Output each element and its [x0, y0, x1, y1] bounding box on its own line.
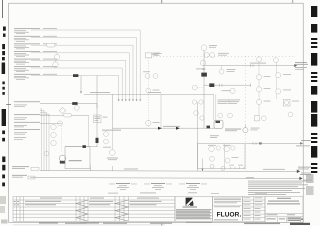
- main line: [204, 65, 294, 67]
- tag bubble A: [218, 113, 223, 118]
- bubble at main elbow: [200, 60, 206, 66]
- signal box tag: [154, 53, 162, 55]
- approval column text: [244, 198, 263, 220]
- upper branch valve: [209, 83, 214, 87]
- scan edge marks right: [311, 6, 317, 173]
- scan edge marks left: [2, 27, 6, 187]
- signal bubble 3: [146, 88, 151, 93]
- chain278 tags: [283, 74, 299, 101]
- page number bottom right: [290, 223, 310, 225]
- main riser block valve: [201, 73, 207, 77]
- feed D3 dashed drop: [60, 123, 62, 153]
- bubble on main line: [221, 66, 223, 69]
- main riser flange ticks: [203, 69, 206, 70]
- stream 7 line: [31, 76, 119, 100]
- utility line: [245, 142, 300, 144]
- signal bubble 4 tag: [153, 121, 160, 124]
- vent tags: [251, 128, 260, 131]
- line A stub 2: [111, 166, 113, 171]
- feed riser elbows: [40, 109, 49, 116]
- dotted line pair tags: [218, 53, 229, 56]
- svg-text:FLUOR.: FLUOR.: [217, 212, 242, 219]
- stream 7 arrowhead: [118, 99, 120, 101]
- cabinet bubble pair 1: [209, 146, 215, 152]
- utility fitting ticks: [253, 142, 256, 145]
- upper branch line: [204, 84, 251, 86]
- feed D2 drop: [88, 115, 90, 146]
- drum: [214, 120, 223, 128]
- header text 2: [148, 91, 161, 94]
- wordmark single line: [214, 205, 240, 208]
- riser ext text: [107, 157, 118, 160]
- cabinet ticks tags: [229, 164, 243, 167]
- cabinet bottom bubble 2: [221, 166, 225, 170]
- chain278 bubble 3: [276, 89, 281, 94]
- fluor block bottom text: [186, 222, 212, 223]
- title bottom cells: [265, 214, 303, 223]
- feed D2 label: [14, 114, 40, 119]
- drum label: [225, 129, 241, 132]
- drum inline valve: [207, 126, 211, 129]
- chain bubble 1: [256, 75, 261, 80]
- cleaning unit box: [65, 147, 90, 169]
- cabinet bottom bubble 1: [210, 164, 214, 168]
- tag bubble B: [228, 113, 233, 118]
- continuation stamp 1: [109, 183, 137, 190]
- vent bubble on battery limit: [244, 125, 246, 128]
- bundle bubble 2: [51, 132, 56, 137]
- header drop 1: [111, 94, 113, 128]
- signal bubble tags: [143, 71, 150, 74]
- scan edge line top-left: [2, 0, 4, 18]
- cabinet bubble pair 2: [224, 146, 230, 152]
- bottom strip text: [65, 223, 280, 224]
- riser extension below junction: [111, 128, 113, 149]
- chain259 top bubble: [257, 57, 262, 62]
- secondary bubble: [230, 88, 235, 93]
- line A source label: [12, 166, 29, 169]
- cabinet drop line: [197, 102, 199, 171]
- stream 4 arrowhead: [128, 99, 130, 101]
- chain bubble 3: [256, 99, 261, 104]
- tag bubble B text: [228, 100, 240, 104]
- stream 7 check valve: [73, 74, 78, 77]
- equipment tag box: [94, 115, 102, 123]
- revision row 1 text: [14, 201, 162, 202]
- stream 2 label: [14, 36, 57, 42]
- signal bubble 4: [146, 120, 151, 125]
- stream 6 arrowhead: [121, 99, 123, 101]
- flow arrow bottom line 2: [176, 127, 180, 130]
- header line: [84, 93, 214, 95]
- continuation stamp 3: [179, 183, 207, 190]
- stream 1 arrowhead: [139, 99, 141, 101]
- feed D3 tag bubble: [58, 121, 63, 126]
- continuation stamp 2: [144, 183, 172, 190]
- title cell text: [267, 218, 304, 221]
- upper branch end tick: [250, 84, 252, 87]
- revision zigzag right: [115, 200, 129, 221]
- fold tick left middle: [6, 103, 11, 105]
- riser top bubble: [201, 45, 207, 51]
- fold tick top center: [161, 0, 163, 3]
- riser side bubbles: [104, 132, 109, 137]
- signal bubble pair: [145, 74, 150, 79]
- cabinet bubble 4 text: [232, 156, 239, 159]
- revision header text: [40, 197, 159, 200]
- stream 6 line: [31, 68, 122, 100]
- feed D3 line: [40, 122, 61, 124]
- stream 3 inline tag oval: [47, 43, 56, 47]
- upper branch ticks: [220, 84, 223, 87]
- stream 10 check valve: [72, 102, 77, 105]
- riser x97: [96, 104, 98, 147]
- wordmark divider: [213, 204, 243, 206]
- line B: [30, 177, 299, 180]
- line B destination label: [300, 174, 312, 180]
- line B end arrow: [299, 177, 302, 180]
- revision row 2 text: [14, 204, 157, 205]
- border inner bottom line: [13, 224, 165, 226]
- scan smudge bottom-left: [0, 196, 8, 224]
- cleaning unit label: [69, 160, 82, 161]
- stream 4 label: [14, 51, 57, 57]
- stream 5 label: [14, 59, 57, 65]
- feed D2 line: [40, 114, 89, 116]
- line B tag box: [28, 176, 35, 179]
- skid bottom line: [112, 127, 215, 129]
- title mid row text: [267, 213, 296, 216]
- line A stub 1: [89, 165, 91, 171]
- bubble on main tags: [227, 69, 236, 72]
- disclaimer paragraph: [176, 209, 212, 219]
- chain bottom box: [254, 116, 259, 121]
- line A stub 3: [202, 159, 204, 172]
- wordmark bottom text: [214, 218, 238, 221]
- by-date labels below table: [39, 223, 99, 224]
- feed D3 label: [14, 122, 40, 127]
- chain line x278: [276, 63, 278, 99]
- dotted line bubble pair: [204, 53, 209, 58]
- cabinet bubble 3: [209, 156, 214, 161]
- feed D4 label: [14, 129, 40, 134]
- bundle bubble 1: [51, 124, 56, 129]
- stream 6 label: [14, 66, 57, 72]
- header text 1: [90, 91, 110, 94]
- fluor daniel diamond logo: [186, 198, 194, 206]
- approval column grid: [243, 197, 266, 222]
- cabinet bottom ticks: [231, 167, 245, 169]
- tag bubble left: [194, 111, 199, 116]
- stream 2 arrowhead: [136, 99, 138, 101]
- fluor daniel block frame: [175, 197, 213, 222]
- secondary tag: [222, 89, 231, 92]
- chain line x261: [258, 62, 260, 116]
- stream 2 line: [31, 38, 137, 100]
- stream 5 arrowhead: [125, 99, 127, 101]
- tag bubble left pair: [192, 100, 196, 104]
- square instrument: [283, 99, 290, 106]
- stream 10 line: [40, 103, 97, 105]
- fluor daniel name: [183, 207, 198, 208]
- revision table grid: [13, 197, 175, 222]
- cabinet box: [198, 144, 246, 169]
- fold tick bottom center: [161, 222, 163, 225]
- stream 10 side bubble: [74, 105, 79, 110]
- notes text block: [248, 181, 308, 195]
- main line on-line text: [250, 62, 266, 65]
- stream 4 line: [31, 53, 129, 100]
- stream 5 line: [31, 60, 126, 99]
- drum vent text: [210, 135, 219, 138]
- stream 4 instrument bubble: [56, 53, 58, 55]
- chain tags: [264, 76, 271, 101]
- utility end arrow: [300, 142, 303, 145]
- riser x97 block valve: [96, 138, 99, 143]
- header drop 2: [160, 94, 162, 128]
- flow arrow bottom line 1: [158, 127, 162, 130]
- main line flange ticks: [251, 64, 254, 67]
- cad file strip text: [108, 192, 267, 194]
- fluor wordmark block frame: [213, 197, 243, 222]
- secondary double drop: [213, 94, 215, 120]
- chain bubble 2: [256, 87, 261, 92]
- revision zigzag left: [76, 200, 88, 221]
- chain278 bubble 2: [276, 73, 281, 78]
- signal bubble 3 tag: [153, 89, 160, 92]
- stream 7 tee drop: [80, 76, 82, 94]
- bubble beside riser: [192, 85, 197, 90]
- dotted future line: [153, 55, 296, 57]
- cleaning unit top valve: [83, 145, 86, 148]
- line A tag box: [31, 167, 39, 170]
- line B source label: [12, 175, 27, 178]
- extra bubble right: [288, 112, 293, 117]
- riser ext bubble: [109, 150, 115, 156]
- line A end arrow: [297, 170, 300, 174]
- cleaning unit top line: [65, 146, 98, 148]
- signal top box: [145, 53, 152, 58]
- riser bundle: [42, 110, 50, 171]
- signal dashed column: [147, 58, 149, 128]
- small label D5: [14, 137, 26, 139]
- fold tick top right: [292, 0, 294, 3]
- pump: [59, 155, 65, 161]
- line A destination label: [298, 167, 311, 174]
- cabinet pair 1 text: [208, 144, 216, 147]
- main line destination label: [295, 62, 308, 70]
- cabinet bubble 4: [225, 158, 230, 163]
- stream 10 label: [14, 101, 40, 106]
- main line end arrow: [294, 64, 297, 67]
- feed D2 oval tag: [64, 114, 72, 117]
- bundle diamond: [59, 107, 65, 113]
- cabinet pair 2 text: [223, 144, 231, 147]
- line A mid label: [124, 168, 138, 171]
- bundle bubble 4: [44, 151, 49, 156]
- line A: [40, 170, 297, 173]
- stream 7 riser tee: [96, 76, 98, 109]
- wordmark paragraph: [214, 198, 241, 204]
- stream 3 line: [31, 45, 133, 100]
- stream 1 line: [31, 30, 140, 100]
- main riser: [203, 51, 205, 129]
- scan gray marks right lower: [306, 174, 314, 195]
- riser side bubble text: [103, 146, 111, 149]
- battery limit dotted: [244, 56, 246, 171]
- stream 3 label: [14, 44, 57, 50]
- riser top bubble text: [209, 45, 217, 47]
- tag bubble A text: [218, 100, 231, 104]
- stream 5 instrument bubble: [55, 60, 57, 62]
- stream 3 arrowhead: [132, 99, 134, 101]
- utility destination label: [296, 140, 311, 146]
- bubble tag: [196, 68, 204, 71]
- title text lines: [267, 198, 300, 205]
- title area frame: [265, 197, 303, 223]
- bottom line label: [163, 125, 180, 128]
- stream 7 label: [14, 74, 57, 80]
- dotted line start tag: [152, 53, 160, 55]
- pump suction line: [64, 157, 67, 159]
- notes heading: [246, 178, 254, 179]
- stream 1 label: [14, 28, 57, 34]
- chain278 bubble 1: [273, 58, 278, 63]
